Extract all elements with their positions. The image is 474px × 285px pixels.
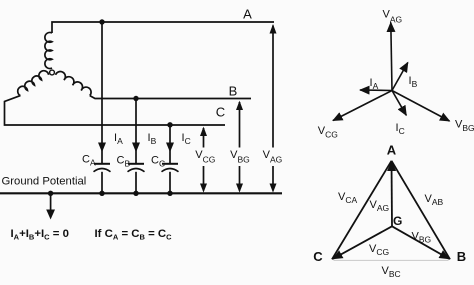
svg-text:CB: CB [117,155,131,169]
svg-text:IA: IA [370,77,379,91]
svg-text:CC: CC [151,155,165,169]
svg-text:IB: IB [409,75,418,89]
svg-text:VAG: VAG [383,9,403,25]
svg-text:Ground Potential: Ground Potential [2,176,87,188]
svg-text:IC: IC [182,132,191,146]
svg-text:VAG: VAG [263,149,283,164]
svg-text:IB: IB [148,132,157,146]
svg-text:VCG: VCG [318,125,338,140]
svg-text:B: B [229,84,238,99]
svg-text:VBG: VBG [455,119,474,134]
svg-text:IA: IA [114,132,123,146]
svg-text:C: C [216,105,225,120]
svg-text:VBC: VBC [382,265,401,279]
svg-text:B: B [457,249,466,264]
svg-text:IA+IB+IC = 0: IA+IB+IC = 0 [11,228,69,242]
svg-text:VCA: VCA [338,191,357,205]
svg-text:IC: IC [396,122,405,136]
svg-text:VCG: VCG [369,243,389,257]
svg-text:VAB: VAB [425,193,444,207]
svg-text:A: A [243,7,252,22]
svg-text:VBG: VBG [230,149,250,164]
svg-text:CA: CA [82,154,96,168]
svg-text:C: C [313,249,323,264]
svg-text:VCG: VCG [195,149,215,164]
svg-text:G: G [393,214,402,228]
svg-text:VAG: VAG [370,199,390,213]
svg-text:VBG: VBG [412,231,432,245]
svg-text:A: A [387,143,397,158]
svg-text:If CA = CB = CC: If CA = CB = CC [95,228,173,242]
